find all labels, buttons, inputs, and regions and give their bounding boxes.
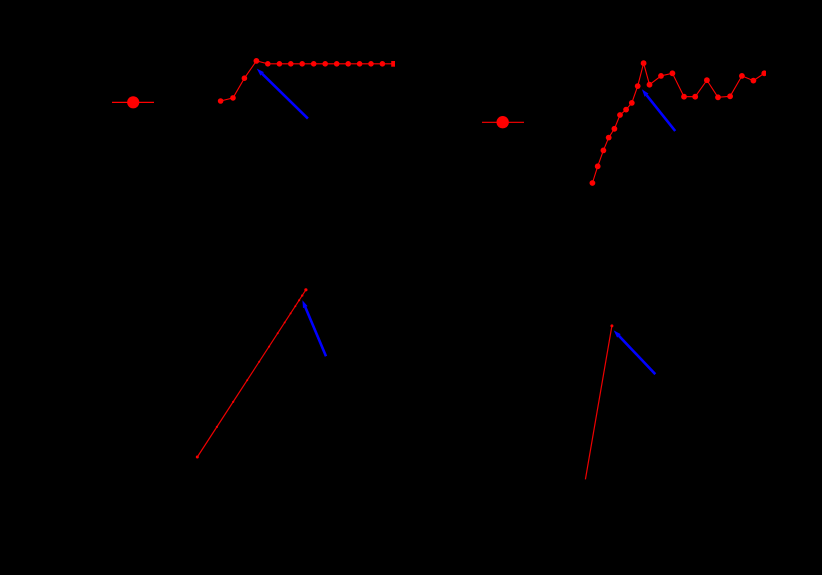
data series bottom-right line (585, 326, 612, 480)
annotation arrow bottom-left (302, 300, 326, 356)
annotation arrow bottom-right (614, 330, 656, 374)
data series bottom-left line (197, 290, 306, 457)
legend marker top-left (112, 96, 154, 108)
data series bottom-right top marker (610, 324, 613, 327)
data series bottom-left markers (196, 288, 308, 458)
annotation arrow top-left (257, 69, 308, 119)
data series top-left line (221, 61, 394, 101)
data series top-right markers (590, 60, 768, 186)
annotation arrow top-right (642, 89, 675, 131)
data series top-left markers (218, 58, 395, 104)
legend marker top-right (482, 116, 524, 128)
data series top-right line (592, 63, 764, 183)
